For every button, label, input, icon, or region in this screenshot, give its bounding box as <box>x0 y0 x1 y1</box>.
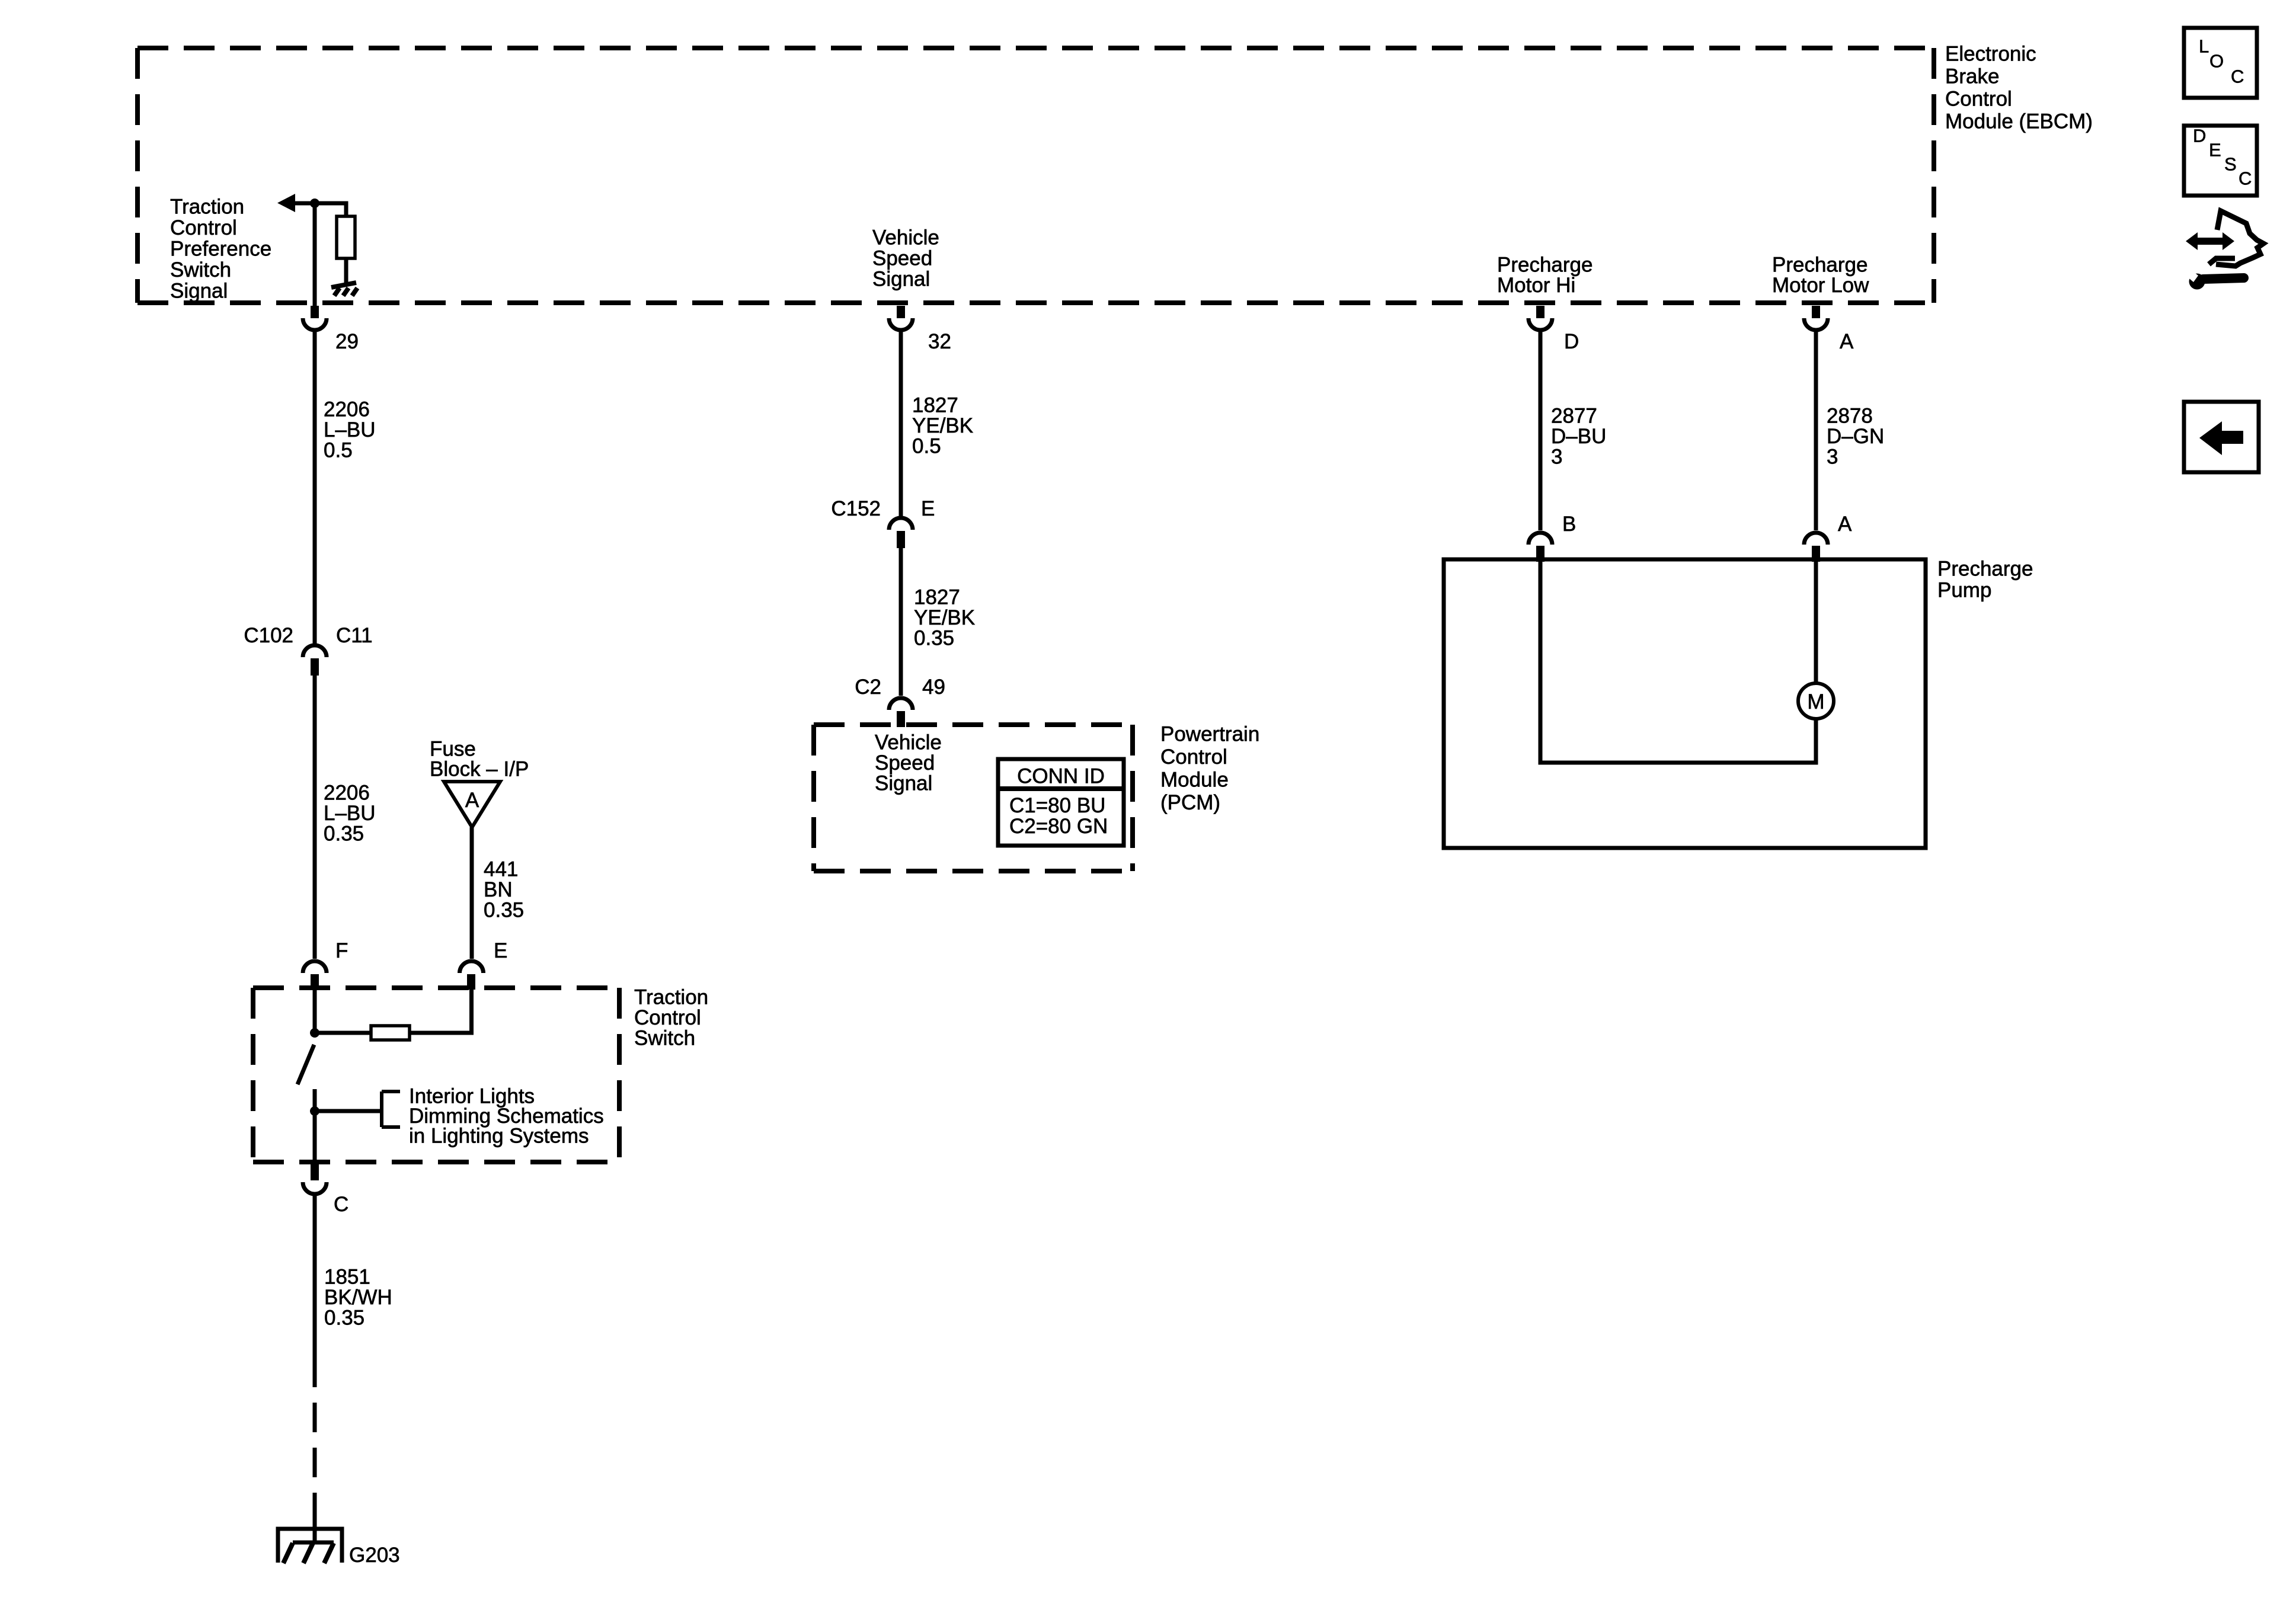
wire: junction to switch resistor <box>315 1031 371 1035</box>
ground G203 symbol <box>278 1529 342 1563</box>
wire 1827 YE/BK 0.35 (C152 to PCM) <box>899 548 903 696</box>
pin B connector (Precharge Pump) <box>1528 533 1552 545</box>
PCM (Powertrain Control Module) dashed box top border <box>814 722 1133 727</box>
junction node (switch illumination tap) <box>310 1028 319 1038</box>
svg-text:YE/BK: YE/BK <box>912 414 973 437</box>
Traction Control Switch dashed box top border <box>253 985 619 990</box>
svg-text:29: 29 <box>335 330 359 353</box>
svg-text:Switch: Switch <box>634 1027 695 1050</box>
pin C connector (switch bottom) <box>311 1164 319 1180</box>
svg-text:CONN ID: CONN ID <box>1017 765 1105 788</box>
wire 1851 BK/WH 0.35 (pin C down) <box>313 1195 317 1358</box>
svg-text:0.35: 0.35 <box>914 627 954 650</box>
CONN ID table divider <box>998 786 1124 791</box>
svg-text:2878: 2878 <box>1827 405 1873 428</box>
svg-text:Vehicle: Vehicle <box>875 731 942 754</box>
svg-text:L: L <box>2199 36 2209 57</box>
wire 2877 D-BU 3 (pin D to pump B) <box>1539 330 1543 530</box>
svg-text:Motor Hi: Motor Hi <box>1497 274 1575 297</box>
EBCM (Electronic Brake Control Module) dashed box right border <box>1932 48 1936 303</box>
svg-text:1827: 1827 <box>914 586 960 609</box>
svg-text:C1=80 BU: C1=80 BU <box>1009 794 1105 817</box>
fuse block triangle symbol A <box>444 782 500 827</box>
svg-text:0.5: 0.5 <box>912 435 941 458</box>
svg-text:D: D <box>1564 330 1579 353</box>
svg-text:E: E <box>494 939 507 962</box>
svg-text:1827: 1827 <box>912 394 958 417</box>
CONN ID table frame <box>998 759 1124 846</box>
svg-text:Traction: Traction <box>170 196 244 219</box>
junction node (arrow/resistor/pin 29) <box>310 199 319 208</box>
svg-text:1851: 1851 <box>324 1266 370 1289</box>
junction node (interior lights tap) <box>310 1106 319 1116</box>
PCM (Powertrain Control Module) dashed box bottom border <box>814 869 1133 873</box>
svg-text:D–GN: D–GN <box>1827 425 1884 448</box>
svg-text:Precharge: Precharge <box>1937 558 2033 581</box>
dashed wire to ground G203 <box>313 1358 317 1515</box>
motor M (precharge pump motor) <box>1798 683 1834 719</box>
svg-text:0.5: 0.5 <box>324 439 353 462</box>
svg-text:Block – I/P: Block – I/P <box>430 758 529 781</box>
svg-text:C: C <box>2239 168 2252 189</box>
svg-text:2877: 2877 <box>1551 405 1597 428</box>
svg-text:BN: BN <box>484 878 513 901</box>
svg-text:Module: Module <box>1160 769 1229 792</box>
wire 2206 L-BU 0.5 (pin 29 to C102) <box>313 330 317 645</box>
svg-text:YE/BK: YE/BK <box>914 606 975 629</box>
DESC icon box <box>2184 126 2257 196</box>
svg-text:Module (EBCM): Module (EBCM) <box>1945 110 2093 133</box>
connector C102/C11 (in-line) <box>303 645 327 657</box>
wire: pin F into switch <box>313 988 317 1033</box>
PCM (Powertrain Control Module) dashed box left border <box>811 725 816 871</box>
svg-text:Traction: Traction <box>634 986 708 1009</box>
EBCM (Electronic Brake Control Module) dashed box left border <box>135 48 140 303</box>
svg-text:Control: Control <box>634 1006 701 1029</box>
svg-text:in Lighting Systems: in Lighting Systems <box>409 1125 589 1148</box>
svg-text:32: 32 <box>928 330 951 353</box>
svg-text:3: 3 <box>1551 446 1562 469</box>
pin A connector (Precharge Pump) <box>1804 533 1828 545</box>
svg-text:441: 441 <box>484 858 518 881</box>
svg-text:Control: Control <box>170 216 237 239</box>
LOC icon box <box>2184 28 2257 98</box>
svg-text:O: O <box>2209 51 2224 72</box>
pin 32 connector (EBCM) <box>897 306 905 318</box>
svg-text:F: F <box>335 939 348 962</box>
resistor (switch illumination) <box>371 1026 410 1040</box>
diagnostic icon: component outline <box>2216 211 2263 266</box>
svg-text:Pump: Pump <box>1937 579 1991 602</box>
svg-text:BK/WH: BK/WH <box>324 1286 392 1309</box>
svg-text:D–BU: D–BU <box>1551 425 1606 448</box>
PCM (Powertrain Control Module) dashed box right border <box>1130 725 1135 871</box>
connector C152 (in-line) <box>889 518 913 530</box>
wire: switch lower contact down <box>313 1089 317 1162</box>
svg-text:C11: C11 <box>336 624 373 647</box>
svg-text:E: E <box>921 497 935 520</box>
ground (EBCM internal chassis ground) <box>331 283 356 287</box>
svg-text:Control: Control <box>1945 88 2012 111</box>
svg-text:Signal: Signal <box>170 280 228 303</box>
resistor (EBCM internal pull-up) <box>337 216 355 258</box>
back-arrow icon box <box>2184 402 2259 472</box>
svg-text:Precharge: Precharge <box>1772 254 1868 277</box>
wire: resistor to internal ground <box>344 258 348 284</box>
svg-text:Brake: Brake <box>1945 65 1999 88</box>
Traction Control Switch dashed box left border <box>251 988 255 1162</box>
pin D connector (EBCM) <box>1536 306 1544 318</box>
svg-text:0.35: 0.35 <box>484 899 524 922</box>
svg-text:0.35: 0.35 <box>324 1307 364 1330</box>
svg-text:A: A <box>1838 513 1852 536</box>
svg-text:L–BU: L–BU <box>324 802 376 825</box>
svg-text:2206: 2206 <box>324 398 370 421</box>
svg-text:Preference: Preference <box>170 238 271 261</box>
pin 29 connector (EBCM) <box>311 306 319 318</box>
wire: junction down to pin 29 <box>313 203 317 306</box>
svg-text:Precharge: Precharge <box>1497 254 1593 277</box>
EBCM (Electronic Brake Control Module) dashed box top border <box>137 46 1934 50</box>
wire 1827 YE/BK 0.5 (pin 32 to C152) <box>899 330 903 517</box>
diagnostic icon: double arrow <box>2186 232 2198 250</box>
svg-text:Control: Control <box>1160 745 1227 769</box>
svg-text:C2: C2 <box>855 676 881 699</box>
svg-text:2206: 2206 <box>324 782 370 805</box>
Traction Control Switch dashed box right border <box>617 988 622 1162</box>
wire: motor to pump pin A (internal) <box>1814 559 1818 683</box>
svg-text:Vehicle: Vehicle <box>872 226 939 249</box>
svg-text:C152: C152 <box>831 497 881 520</box>
Precharge Pump box <box>1444 559 1926 848</box>
svg-text:Signal: Signal <box>875 772 932 795</box>
svg-text:C2=80 GN: C2=80 GN <box>1009 815 1108 838</box>
svg-text:E: E <box>2209 140 2221 161</box>
wire: resistor to pin E <box>410 990 472 1033</box>
svg-text:G203: G203 <box>349 1544 400 1567</box>
signal arrow (internal EBCM, pointing left) <box>277 194 295 212</box>
svg-text:49: 49 <box>922 676 945 699</box>
EBCM (Electronic Brake Control Module) dashed box bottom border <box>137 300 1934 305</box>
svg-text:0.35: 0.35 <box>324 822 364 846</box>
svg-text:B: B <box>1562 513 1576 536</box>
wire 2878 D-GN 3 (pin A to pump A) <box>1814 330 1818 530</box>
svg-text:Electronic: Electronic <box>1945 43 2036 66</box>
svg-text:Speed: Speed <box>875 751 935 774</box>
wire 2206 L-BU 0.35 (C102 to switch pin F) <box>313 676 317 959</box>
svg-text:3: 3 <box>1827 446 1838 469</box>
off-page bracket (interior lights dimming) <box>380 1092 383 1127</box>
svg-text:C102: C102 <box>244 624 293 647</box>
svg-text:S: S <box>2224 154 2237 175</box>
pin E connector (switch) <box>460 961 484 973</box>
Traction Control Switch dashed box bottom border <box>253 1160 619 1164</box>
diagnostic icon: wrench <box>2189 274 2205 290</box>
wire: pump pin B to motor (internal) <box>1540 559 1816 763</box>
svg-text:Powertrain: Powertrain <box>1160 723 1259 746</box>
svg-text:Motor Low: Motor Low <box>1772 274 1869 297</box>
svg-text:M: M <box>1807 690 1824 713</box>
pin F connector (switch) <box>303 961 327 973</box>
pin 49 connector (PCM C2) <box>889 698 913 710</box>
wire: arrow to internal resistor branch <box>294 203 346 216</box>
pin A connector (EBCM) <box>1812 306 1820 318</box>
svg-text:Signal: Signal <box>872 268 930 291</box>
svg-text:C: C <box>2231 66 2244 87</box>
svg-text:Switch: Switch <box>170 258 231 281</box>
svg-text:C: C <box>334 1193 348 1216</box>
wire: to interior lights bracket <box>315 1109 382 1113</box>
svg-text:D: D <box>2193 126 2206 146</box>
svg-text:Speed: Speed <box>872 247 932 270</box>
switch blade contact <box>298 1045 314 1084</box>
svg-text:(PCM): (PCM) <box>1160 791 1220 814</box>
wire 441 BN 0.35 (fuse to switch pin E) <box>470 827 474 959</box>
svg-text:L–BU: L–BU <box>324 418 376 441</box>
svg-text:A: A <box>1840 330 1854 353</box>
svg-text:A: A <box>465 789 479 812</box>
